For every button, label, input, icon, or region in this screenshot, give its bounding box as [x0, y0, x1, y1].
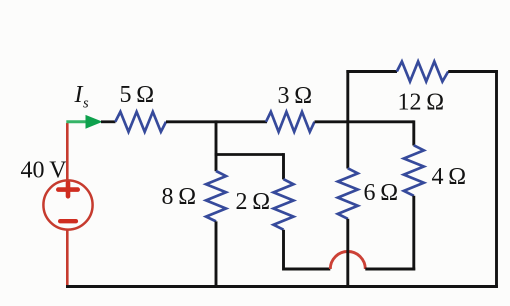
wire 6ohm bottom lead to bottom rail (under hump)	[346, 219, 349, 288]
wire node A to R1	[101, 120, 116, 123]
svg-text:3 Ω: 3 Ω	[278, 83, 313, 109]
svg-text:8 Ω: 8 Ω	[162, 184, 197, 210]
resistor R1 5ohm	[115, 112, 166, 132]
wire 3ohm right to 4ohm top corner	[315, 120, 414, 123]
resistor R3 12ohm	[397, 62, 448, 82]
wire 2ohm bottom lead and run to hump left	[284, 230, 331, 269]
resistor R6 6ohm	[338, 168, 358, 219]
wire vertical 6ohm/12ohm riser (top wire to 6ohm top, crossing main wire)	[346, 70, 349, 168]
wire red from source + terminal up to node A	[66, 123, 69, 181]
wire 8ohm branch top lead (from main wire)	[215, 120, 218, 171]
wire top rail left segment	[346, 70, 397, 73]
wire branch from 8ohm node to 2ohm top	[215, 153, 284, 156]
crossover hump (red arc over 6ohm wire)	[330, 252, 365, 270]
svg-text:Is: Is	[74, 82, 90, 112]
svg-text:4 Ω: 4 Ω	[432, 164, 467, 190]
wire bottom rail	[66, 285, 498, 288]
voltage source V1 40V	[43, 180, 92, 229]
svg-text:5 Ω: 5 Ω	[120, 82, 155, 108]
resistor R4 8ohm	[206, 171, 226, 221]
resistor R7 4ohm	[404, 145, 424, 196]
wire right edge down	[495, 70, 498, 288]
svg-text:6 Ω: 6 Ω	[364, 180, 399, 206]
svg-text:12 Ω: 12 Ω	[398, 90, 445, 116]
wire R1 to node B (3ohm left)	[166, 120, 267, 123]
svg-text:2 Ω: 2 Ω	[236, 189, 271, 215]
resistor R2 3ohm	[266, 112, 315, 132]
current arrow Is	[66, 115, 102, 129]
resistor R5 2ohm	[274, 179, 294, 230]
wire 4ohm top lead (from main wire corner)	[412, 120, 415, 145]
wire 4ohm bottom lead down to hump wire	[412, 196, 415, 271]
svg-text:40 V: 40 V	[21, 158, 68, 184]
wire top rail right segment	[448, 70, 498, 73]
wire hump right to 4ohm bottom	[365, 268, 415, 271]
wire 2ohm top lead	[282, 153, 285, 179]
wire 8ohm bottom lead to bottom rail	[215, 221, 218, 288]
wire red from source - terminal down to bottom rail	[66, 229, 69, 288]
